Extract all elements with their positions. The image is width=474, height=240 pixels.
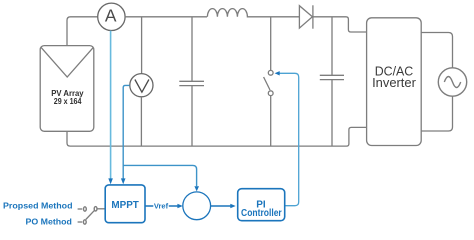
svg-text:PO Method: PO Method <box>26 217 72 226</box>
svg-text:A: A <box>105 6 117 26</box>
svg-text:Controller: Controller <box>241 208 282 219</box>
svg-text:MPPT: MPPT <box>111 199 139 211</box>
svg-text:Inverter: Inverter <box>372 75 416 90</box>
svg-text:Propsed Method: Propsed Method <box>3 202 73 211</box>
svg-text:Vref: Vref <box>154 201 169 210</box>
svg-text:29 x 164: 29 x 164 <box>54 97 82 106</box>
